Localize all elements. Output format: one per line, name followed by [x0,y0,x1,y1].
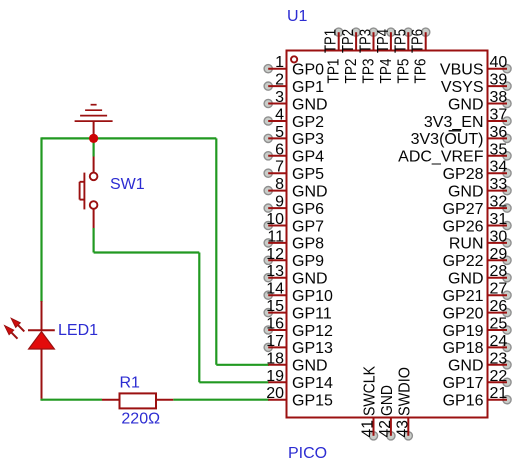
svg-text:GP10: GP10 [292,288,333,305]
svg-text:3V3_EN: 3V3_EN [424,114,484,131]
svg-text:GND: GND [448,358,484,375]
svg-text:30: 30 [490,228,508,245]
svg-text:TP1: TP1 [323,29,340,53]
svg-text:10: 10 [266,211,284,228]
svg-text:23: 23 [490,350,508,367]
svg-text:2: 2 [275,72,284,89]
svg-text:29: 29 [490,246,508,263]
svg-text:24: 24 [490,333,508,350]
svg-text:GP6: GP6 [292,201,324,218]
svg-text:18: 18 [266,350,284,367]
svg-text:12: 12 [266,246,284,263]
svg-text:7: 7 [275,159,284,176]
svg-text:GP28: GP28 [443,166,484,183]
svg-text:37: 37 [490,107,508,124]
svg-text:6: 6 [275,141,284,158]
svg-text:4: 4 [275,107,284,124]
svg-text:TP1: TP1 [326,58,343,83]
svg-text:TP6: TP6 [413,58,430,83]
svg-text:GND: GND [292,96,328,113]
svg-text:TP2: TP2 [343,58,360,83]
svg-text:GP20: GP20 [443,305,484,322]
svg-text:20: 20 [266,385,284,402]
svg-text:22: 22 [490,368,508,385]
svg-text:TP6: TP6 [410,29,427,53]
svg-text:220Ω: 220Ω [121,411,160,428]
svg-text:GP13: GP13 [292,340,333,357]
svg-text:TP4: TP4 [375,29,392,53]
svg-text:3V3(OUT): 3V3(OUT) [411,131,484,148]
svg-text:GP8: GP8 [292,236,324,253]
svg-text:GP11: GP11 [292,305,332,322]
svg-text:27: 27 [490,281,508,298]
svg-text:21: 21 [490,385,508,402]
svg-text:PICO: PICO [288,445,327,462]
svg-text:15: 15 [266,298,284,315]
svg-text:VSYS: VSYS [441,79,484,96]
svg-text:GND: GND [292,183,328,200]
svg-text:SW1: SW1 [110,176,145,193]
svg-text:R1: R1 [120,374,141,391]
svg-text:36: 36 [490,124,508,141]
svg-text:GP0: GP0 [292,62,324,79]
svg-text:GP9: GP9 [292,253,324,270]
svg-text:40: 40 [490,54,508,71]
svg-text:TP5: TP5 [392,29,409,53]
svg-text:34: 34 [490,159,508,176]
svg-text:19: 19 [266,368,284,385]
svg-text:GP21: GP21 [443,288,484,305]
svg-text:14: 14 [266,281,284,298]
svg-text:13: 13 [266,263,284,280]
svg-text:GND: GND [448,183,484,200]
svg-text:U1: U1 [287,8,308,25]
svg-text:28: 28 [490,263,508,280]
svg-text:TP3: TP3 [358,29,375,53]
svg-text:38: 38 [490,89,508,106]
svg-text:ADC_VREF: ADC_VREF [398,149,484,166]
svg-text:GND: GND [379,385,396,416]
svg-text:41: 41 [360,420,377,438]
svg-text:GP26: GP26 [443,218,484,235]
svg-text:GP3: GP3 [292,131,324,148]
svg-text:GP5: GP5 [292,166,324,183]
svg-text:39: 39 [490,72,508,89]
svg-text:VBUS: VBUS [440,62,484,79]
svg-text:43: 43 [394,420,411,438]
svg-text:26: 26 [490,298,508,315]
svg-text:TP2: TP2 [340,29,357,53]
svg-text:SWDIO: SWDIO [396,367,413,416]
svg-text:3: 3 [275,89,284,106]
svg-text:17: 17 [266,333,284,350]
svg-text:GP14: GP14 [292,375,333,392]
svg-text:GND: GND [448,96,484,113]
svg-text:GP27: GP27 [443,201,484,218]
svg-text:11: 11 [267,228,284,245]
svg-text:GND: GND [292,271,328,288]
svg-text:TP5: TP5 [395,58,412,83]
svg-text:TP4: TP4 [378,58,395,83]
svg-text:31: 31 [490,211,508,228]
svg-text:42: 42 [377,420,394,438]
svg-text:GND: GND [448,271,484,288]
svg-text:GP16: GP16 [443,393,484,410]
svg-text:GP19: GP19 [443,323,484,340]
svg-text:RUN: RUN [449,236,484,253]
svg-text:GP22: GP22 [443,253,484,270]
svg-text:9: 9 [275,194,284,211]
svg-text:GP1: GP1 [292,79,324,96]
svg-text:GP4: GP4 [292,149,324,166]
svg-text:GP12: GP12 [292,323,333,340]
svg-text:GP2: GP2 [292,114,324,131]
svg-text:16: 16 [266,316,284,333]
svg-text:33: 33 [490,176,508,193]
svg-text:GND: GND [292,358,328,375]
svg-text:GP18: GP18 [443,340,484,357]
svg-text:1: 1 [275,54,284,71]
svg-text:GP15: GP15 [292,393,333,410]
svg-text:GP7: GP7 [292,218,324,235]
svg-text:25: 25 [490,316,508,333]
svg-text:GP17: GP17 [443,375,484,392]
svg-text:SWCLK: SWCLK [362,366,379,416]
svg-text:8: 8 [275,176,284,193]
svg-text:LED1: LED1 [58,322,98,339]
svg-text:35: 35 [490,141,508,158]
svg-text:5: 5 [275,124,284,141]
svg-text:TP3: TP3 [361,58,378,83]
svg-text:32: 32 [490,194,508,211]
